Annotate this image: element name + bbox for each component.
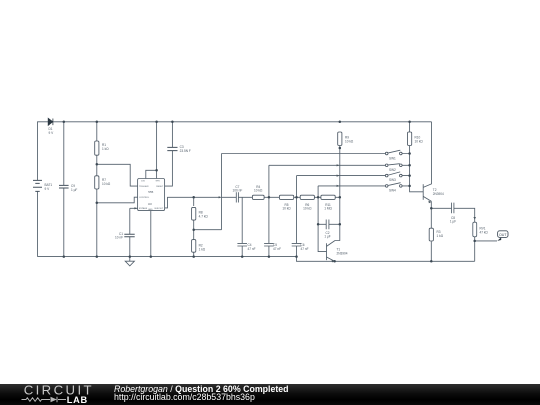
svg-text:10 kΩ: 10 kΩ: [254, 189, 263, 193]
svg-text:47 nF: 47 nF: [248, 247, 256, 251]
svg-text:LAB: LAB: [67, 395, 88, 405]
svg-text:1 kΩ: 1 kΩ: [102, 147, 109, 151]
svg-text:1 MΩ: 1 MΩ: [324, 207, 332, 211]
svg-text:GND: GND: [148, 209, 153, 211]
svg-text:4.7 kΩ: 4.7 kΩ: [199, 214, 209, 218]
svg-text:10 kΩ: 10 kΩ: [102, 182, 111, 186]
svg-text:47 kΩ: 47 kΩ: [480, 230, 489, 234]
svg-text:SW1: SW1: [389, 156, 396, 160]
svg-text:U3: U3: [148, 202, 152, 206]
svg-text:OUT: OUT: [499, 233, 507, 237]
svg-text:10 kΩ: 10 kΩ: [345, 139, 354, 143]
svg-text:9 V: 9 V: [49, 131, 55, 135]
svg-text:10 kΩ: 10 kΩ: [415, 139, 424, 143]
svg-text:555: 555: [148, 190, 153, 194]
svg-text:100 nF: 100 nF: [233, 189, 243, 193]
svg-text:10 nF: 10 nF: [115, 236, 123, 240]
svg-text:CONTROL: CONTROL: [139, 197, 150, 199]
svg-text:TRIGGER: TRIGGER: [139, 186, 149, 188]
svg-text:2N3904: 2N3904: [337, 251, 348, 255]
svg-text:10 kΩ: 10 kΩ: [303, 207, 312, 211]
svg-text:DIS: DIS: [141, 181, 145, 183]
svg-text:1 µF: 1 µF: [324, 235, 330, 239]
svg-text:THR: THR: [155, 181, 160, 183]
svg-text:SW4: SW4: [389, 189, 396, 193]
svg-text:BYPASS: BYPASS: [139, 207, 148, 210]
svg-text:10 kΩ: 10 kΩ: [282, 207, 291, 211]
svg-text:1 µF: 1 µF: [71, 188, 77, 192]
svg-text:1 kΩ: 1 kΩ: [199, 247, 206, 251]
svg-text:BUFOUT: BUFOUT: [155, 208, 164, 210]
svg-text:SW3: SW3: [389, 178, 396, 182]
svg-text:47 nF: 47 nF: [301, 247, 309, 251]
svg-text:1 kΩ: 1 kΩ: [437, 234, 444, 238]
svg-text:47 nF: 47 nF: [273, 247, 281, 251]
svg-text:2N3904: 2N3904: [433, 192, 444, 196]
svg-text:9 V: 9 V: [45, 187, 51, 191]
svg-text:1 µF: 1 µF: [450, 220, 456, 224]
svg-text:SW2: SW2: [389, 168, 396, 172]
svg-text:RESET: RESET: [156, 186, 164, 188]
svg-text:23.5N F: 23.5N F: [180, 149, 191, 153]
